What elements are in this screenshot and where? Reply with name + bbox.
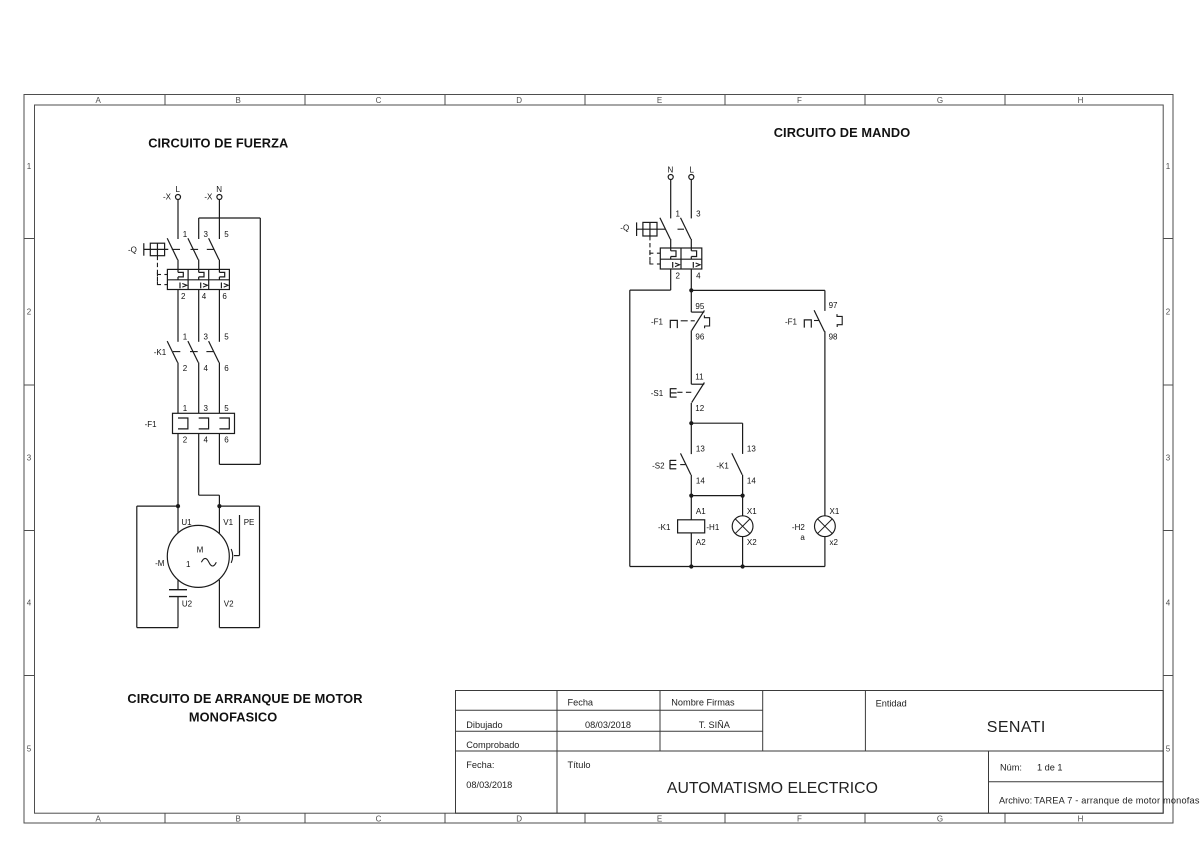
svg-text:L: L: [175, 185, 180, 194]
svg-text:5: 5: [224, 404, 229, 413]
wire branch to K1 aux: [691, 423, 742, 454]
svg-text:1: 1: [27, 162, 32, 171]
svg-text:T. SIÑA: T. SIÑA: [699, 720, 731, 730]
overload relay -F1 (thermal): [145, 413, 235, 433]
svg-text:5: 5: [224, 230, 229, 239]
svg-text:5: 5: [27, 744, 32, 753]
svg-text:-M: -M: [155, 559, 165, 568]
svg-text:-S1: -S1: [651, 389, 664, 398]
PE earth connection: [231, 515, 239, 563]
node at 95 branch: [689, 288, 693, 292]
wire K1 aux down: [742, 475, 744, 496]
wire S1 to branch node: [690, 403, 692, 423]
title block texts: [466, 698, 1200, 806]
svg-text:M: M: [197, 545, 204, 554]
pin labels 2 4 6 (F1 bottom): [183, 435, 229, 444]
svg-text:Archivo:: Archivo:: [999, 795, 1032, 805]
svg-text:1: 1: [186, 560, 191, 569]
svg-text:N: N: [216, 185, 222, 194]
pin labels 2 4 6 (K1 bottom): [183, 364, 229, 373]
svg-text:H: H: [1078, 96, 1084, 105]
svg-text:3: 3: [204, 404, 209, 413]
svg-text:CIRCUITO DE MANDO: CIRCUITO DE MANDO: [774, 125, 911, 140]
svg-text:4: 4: [696, 272, 701, 281]
svg-text:13: 13: [747, 444, 756, 453]
capacitor (start capacitor): [169, 590, 187, 597]
pushbutton -S2 (NO): [652, 453, 691, 474]
svg-text:N: N: [668, 165, 674, 174]
svg-text:G: G: [937, 96, 943, 105]
svg-text:1: 1: [183, 404, 188, 413]
svg-text:B: B: [236, 815, 241, 824]
pin labels 1 3 (mando Q top): [676, 209, 702, 218]
svg-text:Núm:: Núm:: [1000, 762, 1022, 772]
svg-text:D: D: [516, 815, 522, 824]
wire N to breaker pole 5: [218, 200, 220, 239]
svg-text:X1: X1: [747, 507, 757, 516]
svg-text:2: 2: [676, 272, 681, 281]
svg-text:-F1: -F1: [145, 420, 158, 429]
svg-text:6: 6: [222, 292, 227, 301]
wire branch to 97 contact: [691, 290, 825, 311]
svg-text:E: E: [657, 96, 662, 105]
pin labels 2 4 6 (Q bottom): [181, 292, 227, 301]
svg-text:3: 3: [1166, 453, 1171, 462]
svg-text:98: 98: [829, 333, 838, 342]
svg-text:G: G: [937, 815, 943, 824]
svg-text:H: H: [1078, 815, 1084, 824]
wire 98 to H2: [824, 331, 826, 516]
svg-text:4: 4: [204, 435, 209, 444]
svg-text:4: 4: [1166, 598, 1171, 607]
svg-text:3: 3: [696, 209, 701, 218]
svg-text:A: A: [96, 815, 102, 824]
svg-text:A2: A2: [696, 538, 706, 547]
svg-text:CIRCUITO DE ARRANQUE DE MOTOR: CIRCUITO DE ARRANQUE DE MOTOR: [127, 691, 362, 706]
node S2/K1 branch: [689, 421, 693, 425]
title block: [456, 691, 1164, 814]
svg-text:1: 1: [183, 332, 188, 341]
motor terminal labels U2 V2: [182, 599, 234, 608]
wire left loop (U1 to capacitor): [137, 506, 178, 627]
svg-text:-H1: -H1: [706, 523, 719, 532]
terminal N (mando): [668, 165, 674, 179]
svg-text:V1: V1: [223, 518, 233, 527]
svg-text:1: 1: [1166, 162, 1171, 171]
wire 96 to S1: [690, 331, 692, 385]
svg-text:-K1: -K1: [658, 523, 671, 532]
svg-text:C: C: [376, 96, 382, 105]
svg-text:2: 2: [1166, 307, 1171, 316]
motor terminal labels U1 V1 PE: [181, 518, 254, 527]
svg-text:Nombre Firmas: Nombre Firmas: [671, 698, 735, 708]
svg-text:TAREA 7 - arranque de motor mo: TAREA 7 - arranque de motor monofasico: [1034, 795, 1200, 805]
wire Q-2 to left rail: [630, 269, 671, 567]
svg-text:X2: X2: [747, 538, 757, 547]
svg-text:A1: A1: [696, 507, 706, 516]
svg-text:Comprobado: Comprobado: [466, 740, 519, 750]
svg-text:3: 3: [27, 453, 32, 462]
svg-text:1: 1: [676, 209, 681, 218]
svg-text:Fecha:: Fecha:: [466, 760, 494, 770]
svg-text:2: 2: [183, 364, 188, 373]
svg-text:13: 13: [696, 444, 705, 453]
svg-text:-X: -X: [163, 193, 172, 202]
svg-text:L: L: [689, 165, 694, 174]
svg-text:08/03/2018: 08/03/2018: [585, 720, 631, 730]
wire N to Q pole 1: [670, 180, 672, 219]
svg-text:-Q: -Q: [128, 245, 137, 254]
svg-text:6: 6: [224, 364, 229, 373]
svg-text:96: 96: [695, 332, 704, 341]
svg-text:-K1: -K1: [154, 348, 167, 357]
terminal -X L: [163, 185, 181, 201]
svg-text:4: 4: [202, 292, 207, 301]
svg-text:1: 1: [183, 230, 188, 239]
terminal L (mando): [689, 165, 695, 179]
svg-text:Fecha: Fecha: [568, 698, 594, 708]
wire Q-4 down to F1 95: [690, 269, 692, 312]
svg-text:2: 2: [181, 292, 186, 301]
wire F1-6 to bypass: [219, 434, 260, 465]
indicator lamp -H1: [706, 496, 753, 567]
svg-text:14: 14: [747, 476, 756, 485]
node V1: [217, 504, 221, 508]
caption CIRCUITO DE ARRANQUE DE MOTOR MONOFASICO: [127, 691, 362, 725]
svg-text:-K1: -K1: [716, 462, 729, 471]
wire F1-2 to motor U1 node: [177, 434, 179, 507]
svg-text:-H2: -H2: [792, 523, 805, 532]
svg-text:1 de 1: 1 de 1: [1037, 762, 1063, 772]
svg-text:4: 4: [204, 364, 209, 373]
svg-text:Título: Título: [568, 760, 591, 770]
svg-text:4: 4: [27, 598, 32, 607]
indicator lamp -H2: [792, 516, 835, 567]
svg-text:-X: -X: [204, 193, 213, 202]
svg-text:95: 95: [695, 302, 704, 311]
auxiliary contact -K1 13-14: [716, 453, 742, 474]
wire F1-4 to motor V1 node: [199, 434, 220, 507]
terminal -X N: [204, 185, 222, 201]
svg-text:2: 2: [183, 435, 188, 444]
node U1: [176, 504, 180, 508]
svg-text:12: 12: [695, 404, 704, 413]
svg-text:-F1: -F1: [785, 317, 798, 326]
overload NC contact -F1 95-96: [651, 310, 710, 330]
svg-text:11: 11: [695, 373, 704, 382]
svg-text:x2: x2: [830, 538, 839, 547]
svg-text:a: a: [800, 533, 805, 542]
pin labels 1 3 5 (K1 top): [183, 332, 229, 341]
pin labels 1 3 5 (Q top): [183, 230, 229, 239]
svg-text:C: C: [376, 815, 382, 824]
svg-text:MONOFASICO: MONOFASICO: [189, 709, 277, 724]
contactor -K1 main contacts: [154, 341, 219, 362]
contactor coil -K1: [658, 496, 705, 567]
node A1/X1: [689, 494, 745, 498]
svg-text:14: 14: [696, 476, 705, 485]
circuit breaker -Q (3-pole magneto-thermal): [128, 238, 229, 289]
wire L to breaker pole 1: [177, 200, 179, 239]
svg-text:97: 97: [829, 301, 838, 310]
wire L to Q pole 3: [690, 180, 692, 219]
svg-text:Dibujado: Dibujado: [466, 720, 502, 730]
svg-text:5: 5: [224, 332, 229, 341]
pushbutton -S1 (NC): [651, 383, 705, 403]
svg-text:X1: X1: [830, 507, 840, 516]
motor -M (1~ single phase): [155, 506, 229, 590]
svg-text:6: 6: [224, 435, 229, 444]
wires Q to K1: [178, 290, 219, 342]
svg-text:V2: V2: [224, 599, 234, 608]
svg-text:A: A: [96, 96, 102, 105]
pin labels 2 4 (mando Q bottom): [676, 272, 702, 281]
pin labels 1 3 5 (F1 top): [183, 404, 229, 413]
bottom rail wire: [630, 564, 825, 568]
wire right loop (V1 to V2): [219, 506, 259, 627]
svg-text:-F1: -F1: [651, 317, 664, 326]
svg-text:08/03/2018: 08/03/2018: [466, 780, 512, 790]
circuit breaker -Q (2-pole magneto-thermal, mando): [620, 218, 701, 269]
overload NO contact -F1 97-98: [785, 310, 842, 331]
svg-text:B: B: [236, 96, 241, 105]
svg-text:Entidad: Entidad: [876, 698, 907, 708]
svg-text:3: 3: [204, 230, 209, 239]
svg-text:-S2: -S2: [652, 462, 665, 471]
svg-text:D: D: [516, 96, 522, 105]
svg-text:F: F: [797, 815, 802, 824]
svg-text:5: 5: [1166, 744, 1171, 753]
svg-text:CIRCUITO DE FUERZA: CIRCUITO DE FUERZA: [148, 136, 288, 151]
wire S2 to A1 node: [690, 475, 692, 496]
svg-text:PE: PE: [244, 518, 255, 527]
svg-text:SENATI: SENATI: [987, 719, 1046, 736]
svg-text:U1: U1: [181, 518, 192, 527]
svg-text:U2: U2: [182, 599, 193, 608]
svg-text:2: 2: [27, 307, 32, 316]
wire node to S2: [690, 423, 692, 454]
svg-text:-Q: -Q: [620, 223, 629, 232]
svg-text:AUTOMATISMO ELECTRICO: AUTOMATISMO ELECTRICO: [667, 780, 878, 797]
wire bypass from pole 3 top: [199, 218, 261, 464]
wires K1 to F1: [178, 363, 219, 414]
svg-text:F: F: [797, 96, 802, 105]
svg-text:E: E: [657, 815, 662, 824]
svg-text:3: 3: [204, 332, 209, 341]
